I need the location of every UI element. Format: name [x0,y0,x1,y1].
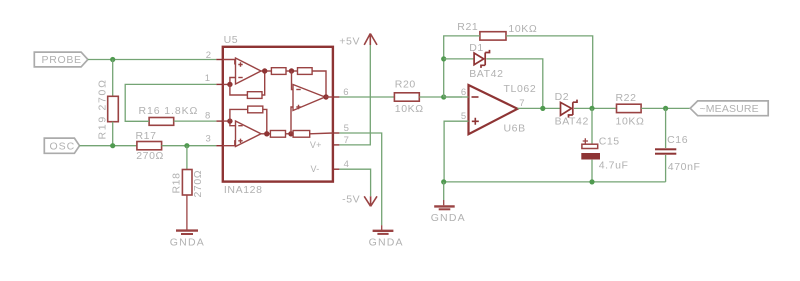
svg-text:BAT42: BAT42 [555,116,589,128]
net label ~MEASURE [690,101,768,116]
wire OSC to R17 [80,145,137,147]
svg-text:D2: D2 [555,91,570,103]
node R21/C15 junction [589,106,594,111]
op-amp U6B TL062 [469,83,537,135]
wire R17 to INA pin 3 [162,145,217,147]
svg-text:270Ω: 270Ω [136,150,164,162]
internal resistor bottom-left [270,131,293,138]
svg-text:INA128: INA128 [224,184,263,196]
node A3 output dot [323,94,328,99]
ground GNDA (mid-left) [369,225,404,248]
node C16 junction [663,106,668,111]
svg-text:270Ω: 270Ω [192,170,204,198]
node top mid dot [289,68,294,73]
node U6B plus / rail junction [441,179,446,184]
svg-text:OSC: OSC [50,140,76,152]
svg-text:6: 6 [461,87,466,98]
op-amp U5 INA128 box [223,34,333,196]
svg-text:D1: D1 [469,42,484,54]
wire junction down to R18 [186,146,188,170]
wire node to A3 plus [291,107,293,134]
svg-text:1: 1 [205,73,210,84]
node junction R17/R18 [184,143,189,148]
svg-text:4.7uF: 4.7uF [599,159,629,171]
node junction OSC/R19 [110,143,115,148]
pin 1 [205,73,223,85]
wire INA pin4 to -5V [339,169,370,196]
svg-text:C16: C16 [667,134,688,146]
wire INA pin5 to ground [339,133,381,225]
INA128 internal amp A1 [223,58,261,84]
pin 5 [333,123,349,134]
svg-text:R18: R18 [171,172,183,193]
internal wire amp A1 output row [261,70,271,72]
node pin8 RG dot [227,118,232,123]
svg-text:GNDA: GNDA [170,236,205,248]
wire INA pin6 to R20 [339,96,394,98]
capacitor C15 [581,108,628,181]
resistor R18 [171,170,205,198]
resistor R20 [394,79,423,115]
node bottom mid dot [288,131,293,136]
pin 6 U6B [444,87,469,98]
node junction PROBE/R19 [110,57,115,62]
wire rail to ground [443,182,445,200]
wire PROBE to INA pin 2 [88,59,216,61]
svg-text:8: 8 [205,111,210,122]
wire bottom rail [444,181,666,183]
svg-text:GNDA: GNDA [431,212,466,224]
svg-text:R22: R22 [616,92,637,104]
wire junction down to R19 [112,60,114,97]
wire +5V to INA pin7 [339,45,370,145]
pin 5 U6B [444,111,468,182]
diode D2 BAT42 [555,91,589,128]
diode D1 BAT42 [469,42,503,80]
internal resistor top-left [271,68,297,75]
power -5V [342,193,377,206]
wire R22 to MEASURE [641,107,690,109]
svg-text:V-: V- [311,164,320,174]
ground GNDA (left) [170,231,205,249]
svg-text:R21: R21 [457,21,478,33]
ground GNDA (mid) [431,200,466,224]
wire R18 to ground [186,195,188,230]
svg-text:7: 7 [519,98,524,109]
resistor R19 [96,78,118,139]
svg-text:-5V: -5V [342,193,360,205]
internal wire A2 output row [261,133,270,135]
wire R19 to OSC net [112,122,114,146]
svg-text:5: 5 [461,111,466,122]
svg-text:PROBE: PROBE [42,54,82,66]
pin 8 [205,111,223,122]
internal resistor top-right (feedback) [298,68,327,97]
internal resistor RG-bottom [230,106,267,134]
node output junction [540,106,545,111]
capacitor C16 [655,108,701,181]
pin 7 [333,135,349,146]
pin 6 [333,87,349,98]
wire R16 to pin8 [174,120,217,122]
INA128 internal amp A2 [223,121,261,147]
node pin1 RG dot [227,82,232,87]
resistor R22 [616,92,645,127]
pin 4 [333,159,349,170]
wire R16 to pin1 loop [125,84,216,121]
svg-text:TL062: TL062 [504,83,537,95]
wire A3 apex to pin6 [325,96,333,98]
svg-text:V+: V+ [310,140,322,150]
svg-text:470nF: 470nF [668,161,701,173]
svg-text:BAT42: BAT42 [469,68,503,80]
wire D2 to node C [574,107,617,109]
svg-text:+5V: +5V [339,36,360,48]
node D1 anode junction [441,56,446,61]
INA128 internal diff amp A3 [293,85,325,111]
svg-text:U6B: U6B [504,123,526,135]
svg-text:10KΩ: 10KΩ [508,23,537,35]
pin 3 [206,134,223,146]
wire feedback R21 loop [444,36,593,109]
wire D1 row [444,59,543,109]
svg-text:2: 2 [206,50,211,61]
pin 2 [206,50,223,61]
net label OSC [44,138,79,153]
svg-text:R19 270Ω: R19 270Ω [96,78,108,139]
svg-text:R17: R17 [136,130,157,142]
power +5V [339,34,377,48]
svg-text:10KΩ: 10KΩ [616,116,645,128]
svg-text:~MEASURE: ~MEASURE [700,103,759,115]
resistor R16 [139,105,199,125]
wire node to A3 minus [292,71,294,90]
node A2 output dot [264,131,269,136]
internal resistor RG-top [230,72,265,99]
pin 7 U6B output [518,98,560,109]
svg-text:C15: C15 [599,136,620,148]
resistor R17 [136,130,164,162]
node A1 output dot [262,68,267,73]
net label PROBE [34,52,88,67]
svg-text:3: 3 [206,134,211,145]
svg-text:R16 1.8KΩ: R16 1.8KΩ [139,105,199,117]
resistor R21 [457,21,537,40]
svg-text:GNDA: GNDA [369,236,404,248]
svg-text:10KΩ: 10KΩ [395,103,424,115]
wire R20 to U6B minus node [419,96,462,98]
svg-text:R20: R20 [395,79,416,91]
node U6B minus junction [441,94,446,99]
svg-text:U5: U5 [224,34,239,46]
node C15 / rail junction [589,179,594,184]
internal resistor bottom-right (ref) [293,131,333,138]
